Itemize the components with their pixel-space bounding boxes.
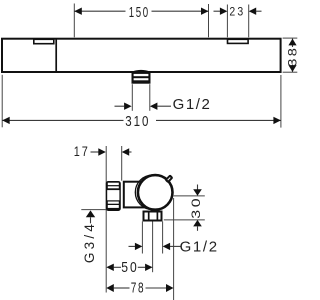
svg-text:150: 150 [129,4,150,21]
svg-text:78: 78 [131,280,146,297]
svg-text:23: 23 [229,5,245,19]
svg-text:17: 17 [74,143,90,159]
svg-text:G1/2: G1/2 [173,96,210,113]
svg-text:50: 50 [121,259,139,276]
svg-text:38: 38 [286,46,300,67]
svg-text:G3/4: G3/4 [82,224,97,263]
svg-text:30: 30 [189,196,203,219]
svg-text:G1/2: G1/2 [180,238,218,255]
svg-text:310: 310 [125,113,150,130]
